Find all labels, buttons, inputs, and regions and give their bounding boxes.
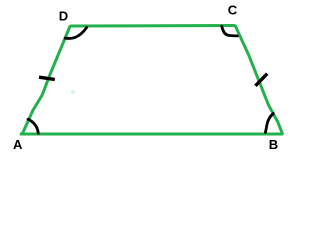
svg-text:B: B [269, 137, 278, 152]
angle arc at A [28, 119, 38, 133]
tick mark on left leg [39, 77, 55, 79]
angle arc at B [265, 114, 273, 133]
tick mark on right leg [255, 74, 267, 86]
svg-text:C: C [228, 3, 238, 18]
side AB (bottom) [20, 133, 284, 136]
side BC (right leg) [235, 26, 283, 135]
angle arc at D [65, 27, 87, 38]
side AD (left leg) [22, 26, 70, 135]
faint dot inside [71, 90, 75, 94]
svg-text:A: A [13, 137, 23, 152]
svg-text:D: D [59, 8, 68, 23]
side DC (top) [70, 24, 236, 28]
angle arc at C [222, 26, 238, 36]
